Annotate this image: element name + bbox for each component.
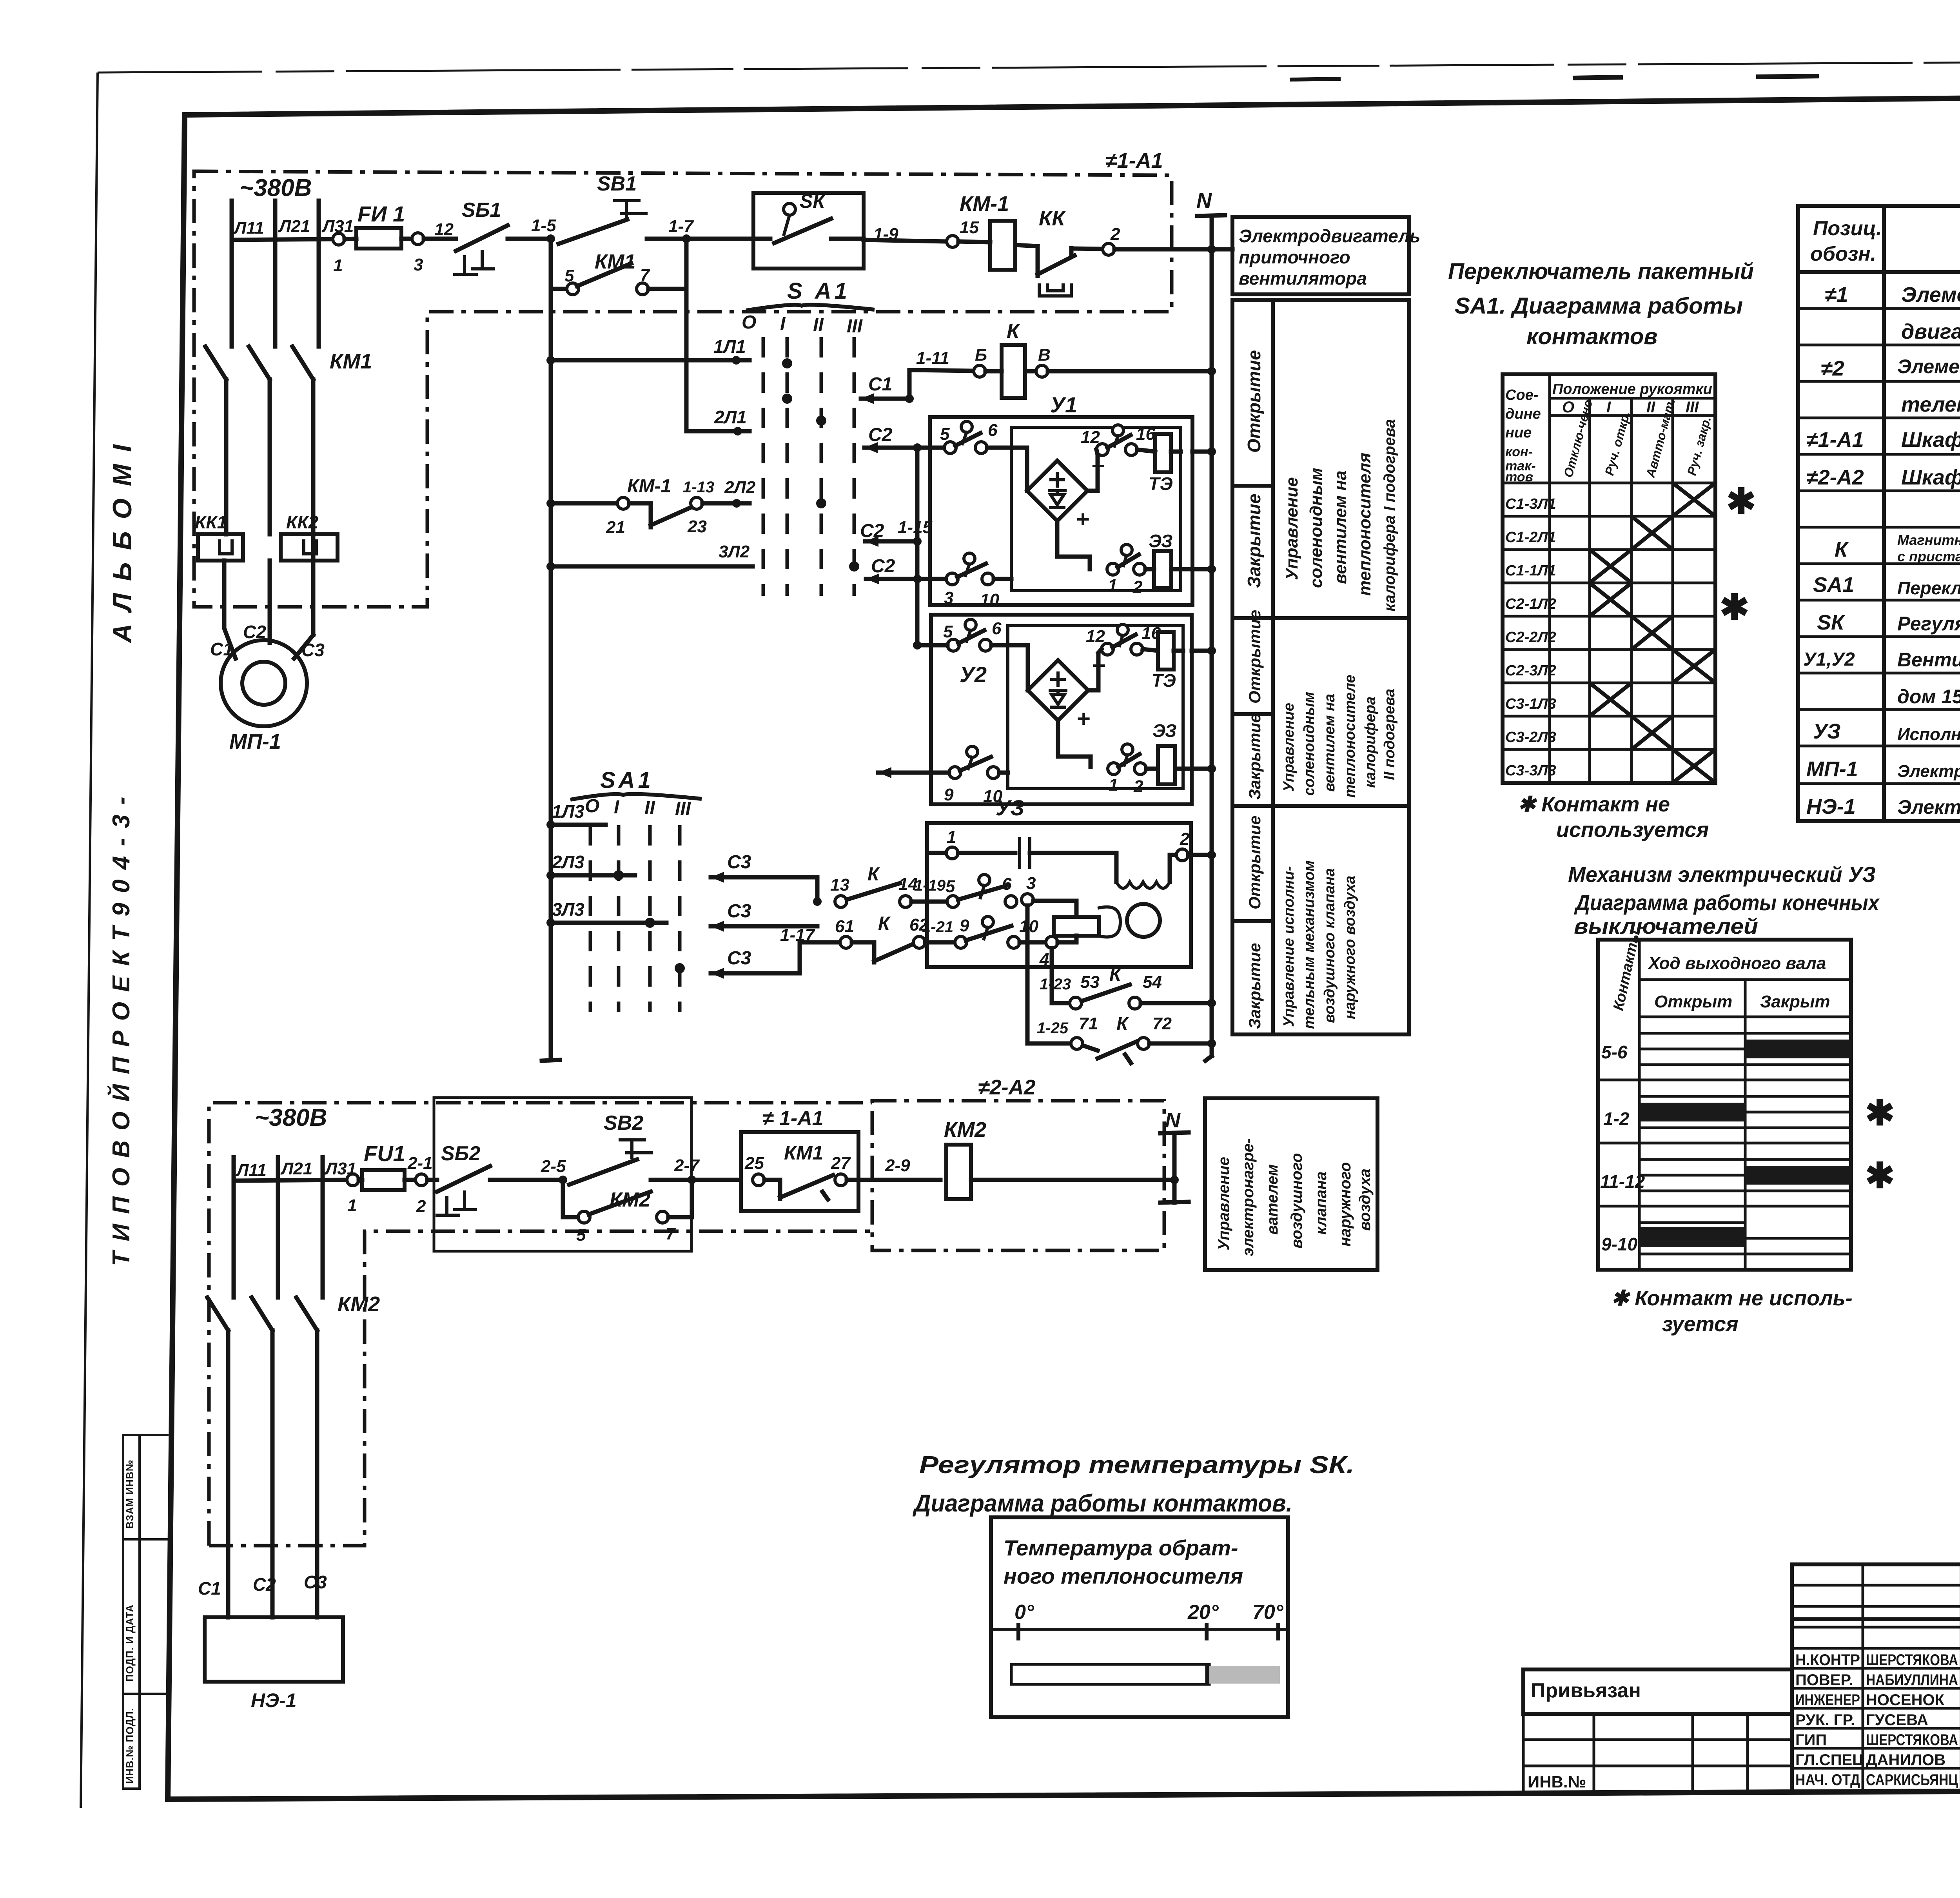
- U1 contact 12-16: [1096, 444, 1108, 455]
- svg-text:тельным механизмом: тельным механизмом: [1301, 860, 1318, 1029]
- wire phase L2 lower: [276, 1157, 280, 1296]
- svg-text:ИНВ.№ ПОДЛ.: ИНВ.№ ПОДЛ.: [124, 1708, 136, 1784]
- svg-text:наружного воздуха: наружного воздуха: [1342, 876, 1358, 1019]
- svg-text:приточного: приточного: [1239, 247, 1350, 267]
- left signature columns: [1862, 1564, 1864, 1792]
- svg-text:✱ Контакт не: ✱ Контакт не: [1518, 793, 1670, 816]
- svg-text:ИНЖЕНЕР: ИНЖЕНЕР: [1795, 1691, 1860, 1709]
- wire phase L31: [317, 201, 321, 344]
- svg-text:2: 2: [1133, 777, 1143, 796]
- U1 contact 3-10: [946, 573, 958, 585]
- U3 node 3: [1022, 894, 1033, 905]
- cabinet box ≠1-A1 lower: [741, 1132, 858, 1211]
- svg-text:КМ2: КМ2: [610, 1189, 650, 1211]
- U1 contact 5-6: [944, 442, 956, 454]
- svg-text:Управление: Управление: [1215, 1157, 1232, 1250]
- pin 1 terminal: [333, 233, 345, 245]
- svg-text:II: II: [813, 315, 824, 336]
- svg-text:Позиц.: Позиц.: [1813, 217, 1882, 240]
- top edge cut marks: [1573, 77, 1623, 78]
- svg-text:Т И П О В О Й П Р О Е К Т: Т И П О В О Й П Р О Е К Т 9 0 4 - 3 -: [107, 795, 135, 1266]
- svg-text:УЗ: УЗ: [1813, 720, 1841, 743]
- svg-text:С3: С3: [727, 901, 751, 922]
- wire phase L3 lower: [321, 1157, 325, 1296]
- svg-text:К: К: [1116, 1014, 1129, 1034]
- U2 contact 1-2 with electromagnet EZ: [1108, 763, 1120, 775]
- pin 1 terminal lower: [347, 1174, 359, 1186]
- svg-text:II: II: [1646, 399, 1655, 416]
- svg-text:1: 1: [333, 256, 343, 275]
- svg-text:1-19: 1-19: [914, 877, 946, 894]
- motor MP-1: [221, 640, 307, 726]
- node 1-7: [647, 237, 753, 241]
- svg-text:У1,У2: У1,У2: [1803, 649, 1855, 670]
- svg-text:ЭЗ: ЭЗ: [1152, 720, 1176, 741]
- svg-text:2Л3: 2Л3: [552, 852, 584, 872]
- X marks: [1590, 483, 1715, 783]
- svg-text:1-5: 1-5: [531, 216, 556, 235]
- svg-text:Температура обрат-: Температура обрат-: [1004, 1535, 1238, 1560]
- svg-text:вентилем на: вентилем на: [1331, 470, 1350, 584]
- svg-text:2: 2: [416, 1197, 426, 1216]
- svg-text:О: О: [742, 312, 756, 333]
- svg-text:Закрытие: Закрытие: [1245, 713, 1264, 800]
- svg-text:5: 5: [940, 425, 950, 444]
- svg-text:К: К: [1109, 964, 1122, 985]
- svg-text:≠2-А2: ≠2-А2: [978, 1076, 1036, 1099]
- svg-text:SВ2: SВ2: [604, 1112, 643, 1134]
- svg-text:3Л2: 3Л2: [719, 542, 750, 561]
- svg-text:2: 2: [1110, 225, 1120, 244]
- svg-text:3: 3: [414, 255, 423, 274]
- svg-text:используется: используется: [1556, 818, 1709, 842]
- contact KM1 break in box: [753, 1174, 764, 1186]
- svg-text:2: 2: [1132, 577, 1143, 597]
- pushbutton SB1 break contact: [424, 237, 456, 241]
- svg-text:≠2-А2: ≠2-А2: [1806, 466, 1864, 489]
- svg-text:1: 1: [347, 1196, 357, 1215]
- svg-text:Б: Б: [975, 345, 987, 365]
- svg-text:Закрытие: Закрытие: [1245, 943, 1264, 1029]
- svg-text:Механизм электрический УЗ: Механизм электрический УЗ: [1568, 862, 1876, 887]
- wire 3L2 row: [546, 562, 555, 571]
- U3 contact 9-10 row: [840, 936, 852, 948]
- svg-text:КК1: КК1: [195, 512, 227, 532]
- svg-text:3: 3: [1026, 874, 1036, 893]
- dash-dot cabinet boundary ≠1-A1: [194, 171, 1172, 607]
- wire 3L3 row: [546, 918, 555, 927]
- svg-text:Сое-: Сое-: [1505, 387, 1538, 403]
- wire phase L21: [273, 201, 278, 344]
- svg-text:Открытие: Открытие: [1245, 816, 1264, 909]
- svg-text:ГИП: ГИП: [1795, 1731, 1827, 1749]
- pushbutton SB2 break contact: [427, 1178, 437, 1182]
- svg-text:С2-2Л2: С2-2Л2: [1505, 629, 1556, 646]
- svg-text:ного теплоносителя: ного теплоносителя: [1004, 1564, 1243, 1588]
- svg-text:1-7: 1-7: [668, 217, 694, 236]
- svg-text:✱: ✱: [1865, 1094, 1895, 1133]
- svg-text:Управление исполни-: Управление исполни-: [1281, 866, 1297, 1027]
- sheet outer thin border: [81, 73, 98, 1808]
- U2 contact 5-6: [947, 639, 959, 651]
- svg-text:Элементы управления электро-: Элементы управления электро-: [1901, 283, 1960, 307]
- svg-text:III: III: [675, 798, 691, 819]
- svg-text:дине: дине: [1505, 406, 1541, 422]
- svg-text:Шкаф управления ШУ5101-03В2: Шкаф управления ШУ5101-03В2Ж: [1901, 428, 1960, 452]
- svg-text:15: 15: [960, 218, 979, 237]
- svg-text:N: N: [1196, 189, 1212, 212]
- svg-text:I: I: [780, 314, 786, 334]
- svg-text:1Л1: 1Л1: [713, 336, 746, 357]
- thermal element KK2: [281, 534, 338, 561]
- svg-text:1-21: 1-21: [922, 918, 953, 936]
- svg-text:калорифера: калорифера: [1362, 697, 1379, 788]
- pin 2 terminal: [1071, 249, 1103, 249]
- contact K 13-14: [835, 896, 847, 907]
- svg-text:≠1: ≠1: [1825, 283, 1848, 307]
- node 2-7: [651, 1178, 741, 1182]
- thermal element KK1: [198, 534, 243, 561]
- svg-text:С1: С1: [210, 639, 233, 659]
- svg-text:клапана: клапана: [1312, 1172, 1330, 1235]
- svg-text:16: 16: [1136, 425, 1155, 444]
- SA1L dashed column O: [589, 825, 592, 1012]
- row rule lines + bars: [1639, 1033, 1851, 1254]
- U2 feed from left: [878, 771, 949, 775]
- svg-text:ИНВ.№: ИНВ.№: [1528, 1773, 1586, 1791]
- svg-text:SВ1: SВ1: [597, 172, 637, 195]
- phase drops to heater: [226, 1330, 230, 1617]
- svg-text:А Л Ь Б О М I: А Л Ь Б О М I: [107, 442, 137, 644]
- SA1 dashed column III: [853, 337, 856, 596]
- svg-text:ШЕРСТЯКОВА: ШЕРСТЯКОВА: [1866, 1731, 1958, 1749]
- svg-text:5: 5: [946, 877, 955, 896]
- leads into motor: [224, 561, 236, 659]
- svg-text:Л21: Л21: [278, 217, 310, 236]
- svg-text:1-13: 1-13: [683, 479, 714, 496]
- TP row: [1792, 1617, 1960, 1621]
- svg-text:калорифера I подогрева: калорифера I подогрева: [1381, 419, 1398, 611]
- svg-text:наружного: наружного: [1337, 1162, 1354, 1247]
- U2 rectifier bridge: [1028, 660, 1088, 720]
- U1 outputs to N: [1192, 450, 1212, 454]
- svg-text:Электродвигатель 4А100LВС,~380: Электродвигатель 4А100LВС,~380В,2,2кВт: [1897, 762, 1960, 781]
- svg-text:Магнитный пускатель ПМЛ110004: Магнитный пускатель ПМЛ110004 ~220В: [1897, 532, 1960, 548]
- svg-text:72: 72: [1152, 1014, 1172, 1033]
- svg-text:соленоидным: соленоидным: [1307, 468, 1326, 588]
- U1 heater TE: [1155, 434, 1171, 472]
- svg-text:23: 23: [687, 517, 707, 536]
- svg-text:61: 61: [835, 917, 854, 936]
- svg-text:1: 1: [1108, 576, 1117, 595]
- svg-text:воздуха: воздуха: [1356, 1169, 1374, 1231]
- svg-text:дом 15КЧ892ПСВВ , ДУ-2: дом 15КЧ892ПСВВ , ДУ-25: [1897, 686, 1960, 708]
- svg-text:К: К: [867, 864, 880, 885]
- box: электродвигатель приточного вентилятора: [1232, 217, 1409, 294]
- svg-text:ПОДП. И ДАТА: ПОДП. И ДАТА: [124, 1604, 136, 1682]
- svg-text:27: 27: [831, 1154, 851, 1173]
- contact K 53-54 row: [1052, 948, 1070, 1003]
- U1 contact 1-2 with electromagnet EZ: [1107, 563, 1119, 575]
- svg-text:5: 5: [943, 622, 953, 641]
- svg-text:Закрыт: Закрыт: [1760, 992, 1830, 1011]
- svg-text:электронагре-: электронагре-: [1240, 1138, 1257, 1256]
- fuse FU1: [356, 228, 401, 249]
- svg-text:С3-2Л3: С3-2Л3: [1505, 729, 1556, 746]
- SA1L dashed column II: [648, 825, 652, 1012]
- main contacts KM2: [207, 1296, 234, 1330]
- lower main row wire: [234, 1180, 347, 1181]
- svg-text:SА1: SА1: [1813, 573, 1854, 597]
- wire 1L3 row: [546, 820, 555, 829]
- svg-text:SК: SК: [800, 190, 826, 212]
- contact K 71-72 row: [1027, 905, 1071, 1043]
- svg-text:6: 6: [988, 421, 998, 440]
- SA1 dashed column O: [762, 337, 765, 596]
- svg-text:Регулятор температуры Т.УДЭ-4: Регулятор температуры Т.УДЭ-4: [1897, 613, 1960, 635]
- svg-text:с приставкой ПКЛ 2204.ТУ16-526: с приставкой ПКЛ 2204.ТУ16-526.437-78: [1897, 548, 1960, 564]
- svg-text:5-6: 5-6: [1601, 1042, 1628, 1062]
- svg-text:✱: ✱: [1726, 482, 1756, 521]
- svg-text:С2: С2: [868, 425, 893, 445]
- svg-text:ВЗАМ ИНВ№: ВЗАМ ИНВ№: [124, 1459, 136, 1529]
- svg-text:МП-1: МП-1: [229, 730, 281, 753]
- wire main control row: [232, 239, 333, 240]
- svg-text:2-5: 2-5: [541, 1157, 566, 1176]
- U3 motor: [1099, 907, 1120, 937]
- svg-text:ГУСЕВА: ГУСЕВА: [1866, 1711, 1928, 1729]
- svg-text:У2: У2: [960, 662, 987, 687]
- svg-text:9: 9: [960, 916, 969, 935]
- svg-text:SК: SК: [1817, 611, 1846, 634]
- svg-text:НАБИУЛЛИНА: НАБИУЛЛИНА: [1866, 1671, 1958, 1689]
- svg-text:2Л1: 2Л1: [714, 407, 747, 427]
- svg-text:SА1. Диаграмма работы: SА1. Диаграмма работы: [1455, 293, 1743, 319]
- svg-text:ДАНИЛОВ: ДАНИЛОВ: [1866, 1751, 1945, 1769]
- svg-text:1Л3: 1Л3: [552, 801, 584, 822]
- svg-text:2Л2: 2Л2: [724, 478, 756, 497]
- wire 2L3 row: [546, 871, 555, 880]
- svg-text:5: 5: [576, 1225, 586, 1245]
- node 15 terminal: [864, 240, 947, 241]
- svg-text:✱: ✱: [1865, 1156, 1895, 1196]
- svg-text:воздушного: воздушного: [1288, 1153, 1305, 1248]
- SA1L dashed column III: [678, 825, 682, 1012]
- svg-text:обозн.: обозн.: [1810, 243, 1876, 265]
- svg-text:Привьязан: Привьязан: [1531, 1679, 1641, 1702]
- svg-text:1-25: 1-25: [1037, 1020, 1069, 1037]
- svg-text:С1-2Л1: С1-2Л1: [1505, 529, 1556, 546]
- auxiliary contact KM1 self-hold: [549, 239, 553, 289]
- SA1 dashed column II: [820, 337, 823, 596]
- svg-text:11-12: 11-12: [1600, 1171, 1645, 1192]
- привязан box: [1523, 1669, 1792, 1792]
- pushbutton SB2 make contact: [569, 1159, 637, 1185]
- U1 inner unit: [1011, 427, 1181, 591]
- svg-text:53: 53: [1080, 973, 1100, 992]
- contactor coil KM2: [946, 1145, 971, 1199]
- svg-text:2-9: 2-9: [885, 1156, 910, 1175]
- svg-text:соленоидным: соленоидным: [1301, 692, 1318, 796]
- svg-text:НЭ-1: НЭ-1: [251, 1689, 297, 1711]
- svg-text:Открытие: Открытие: [1245, 610, 1264, 704]
- svg-text:✱ Контакт не исполь-: ✱ Контакт не исполь-: [1611, 1287, 1853, 1310]
- svg-text:III: III: [847, 316, 863, 337]
- svg-text:Открытие: Открытие: [1244, 350, 1264, 453]
- svg-text:КМ1: КМ1: [330, 350, 372, 373]
- pin 3 terminal: [412, 233, 424, 245]
- relay K coil: [1002, 345, 1025, 398]
- svg-text:Положение рукоятки: Положение рукоятки: [1552, 381, 1712, 397]
- svg-text:2-1: 2-1: [407, 1154, 433, 1173]
- contact KM-1 21-23 row: [546, 499, 555, 508]
- svg-text:Л21: Л21: [280, 1159, 312, 1178]
- svg-text:5: 5: [564, 266, 574, 285]
- svg-text:С1-1Л1: С1-1Л1: [1505, 563, 1556, 579]
- svg-text:2-7: 2-7: [674, 1156, 700, 1175]
- svg-text:вателем: вателем: [1264, 1164, 1281, 1235]
- svg-text:К: К: [878, 913, 891, 934]
- svg-text:К: К: [1007, 320, 1020, 343]
- svg-text:С1: С1: [868, 374, 892, 395]
- svg-text:кон-: кон-: [1505, 445, 1533, 459]
- svg-text:теплоносителя: теплоносителя: [1355, 453, 1374, 596]
- svg-text:+: +: [1076, 506, 1090, 532]
- main contacts KM1: [205, 344, 232, 379]
- svg-text:Элементы управления электронаг: Элементы управления электронагрева-: [1897, 356, 1960, 377]
- svg-text:Открыт: Открыт: [1654, 992, 1732, 1011]
- svg-text:НЭ-1: НЭ-1: [1806, 795, 1856, 818]
- svg-text:SБ1: SБ1: [462, 199, 501, 221]
- svg-text:13: 13: [830, 875, 849, 895]
- U2 outputs to N: [1192, 649, 1212, 653]
- svg-text:ГЛ.СПЕЦ: ГЛ.СПЕЦ: [1795, 1751, 1864, 1769]
- U1 wires internal: [987, 446, 1011, 450]
- wire phase L1 lower: [232, 1157, 236, 1296]
- long feed wire down left: [549, 289, 553, 1058]
- svg-text:С3: С3: [727, 852, 751, 873]
- svg-text:6: 6: [992, 619, 1002, 638]
- svg-text:≠ 1-А1: ≠ 1-А1: [762, 1107, 824, 1130]
- U2 heater TE: [1158, 632, 1174, 670]
- svg-text:Переключатель пакетный ППЗ-1: Переключатель пакетный ППЗ-10/Н3: [1897, 578, 1960, 598]
- svg-text:I: I: [1606, 399, 1611, 416]
- node 2-5: [559, 1176, 567, 1184]
- dash-dot zone boundary ≠2: [209, 1103, 872, 1546]
- svg-text:зуется: зуется: [1662, 1312, 1739, 1336]
- svg-text:Н.КОНТР: Н.КОНТР: [1795, 1651, 1860, 1669]
- svg-text:7: 7: [640, 265, 651, 285]
- svg-text:КМ-1: КМ-1: [960, 192, 1009, 216]
- svg-text:Л11: Л11: [233, 218, 264, 238]
- svg-text:1-17: 1-17: [780, 925, 816, 945]
- svg-text:С3-1Л3: С3-1Л3: [1505, 696, 1556, 712]
- svg-text:С2: С2: [871, 556, 895, 577]
- svg-text:вентилятора: вентилятора: [1239, 268, 1367, 289]
- svg-text:С3-3Л3: С3-3Л3: [1505, 762, 1556, 779]
- svg-text:О: О: [1562, 399, 1574, 416]
- svg-text:РУК. ГР.: РУК. ГР.: [1795, 1711, 1855, 1729]
- svg-text:12: 12: [434, 220, 454, 239]
- svg-text:FU1: FU1: [364, 1141, 405, 1166]
- svg-text:≠1-А1: ≠1-А1: [1105, 149, 1163, 172]
- svg-text:~380В: ~380В: [240, 174, 312, 201]
- U2 inner unit: [1008, 626, 1183, 789]
- svg-text:1: 1: [947, 827, 956, 847]
- svg-text:вентилем на: вентилем на: [1321, 694, 1338, 792]
- fuse FU1 lower: [362, 1170, 405, 1190]
- svg-text:Исполнительный механизм МЭО-4: Исполнительный механизм МЭО-4/63-0,63: [1897, 725, 1960, 744]
- svg-text:7: 7: [666, 1224, 676, 1243]
- svg-text:9: 9: [944, 785, 954, 804]
- U3 solenoid: [1054, 917, 1099, 936]
- svg-text:Шкаф управления ШУ5101-0382Д: Шкаф управления ШУ5101-0382Д: [1901, 466, 1960, 489]
- wire 2L1 row: [684, 289, 689, 431]
- svg-text:Л11: Л11: [236, 1161, 267, 1180]
- svg-text:КМ2: КМ2: [338, 1292, 380, 1316]
- svg-text:≠1-А1: ≠1-А1: [1806, 428, 1864, 452]
- svg-text:У1: У1: [1050, 392, 1077, 417]
- svg-text:КМ1: КМ1: [595, 250, 635, 273]
- svg-text:12: 12: [1081, 428, 1100, 447]
- svg-text:1-15: 1-15: [898, 518, 933, 537]
- svg-text:2: 2: [1180, 829, 1190, 849]
- svg-text:ние: ние: [1505, 425, 1532, 441]
- svg-text:Закрытие: Закрытие: [1244, 494, 1264, 588]
- svg-text:ТЭ: ТЭ: [1152, 670, 1176, 691]
- svg-text:С2: С2: [253, 1574, 276, 1595]
- svg-text:С2-3Л2: С2-3Л2: [1505, 662, 1556, 679]
- U3 contact 5-6 changeover: [947, 896, 959, 907]
- solenoid valve U1 box: [930, 417, 1192, 605]
- svg-text:Вентиль с электромагнитным пр: Вентиль с электромагнитным приво-: [1897, 649, 1960, 671]
- solenoid valve U2 box: [931, 615, 1192, 804]
- svg-text:✱: ✱: [1720, 588, 1749, 627]
- electric heater NE-1: [205, 1617, 343, 1682]
- svg-text:ШЕРСТЯКОВА: ШЕРСТЯКОВА: [1866, 1651, 1958, 1669]
- svg-text:III: III: [1686, 399, 1699, 416]
- svg-text:КМ2: КМ2: [944, 1118, 986, 1141]
- svg-text:10: 10: [980, 590, 999, 610]
- svg-text:4: 4: [1039, 950, 1049, 969]
- svg-text:САРКИСЬЯНЦ: САРКИСЬЯНЦ: [1866, 1771, 1958, 1789]
- box: управление вентилем калорифера I: [1232, 300, 1409, 618]
- svg-text:1-11: 1-11: [916, 348, 949, 368]
- svg-text:Диаграмма работы контактов.: Диаграмма работы контактов.: [912, 1490, 1292, 1517]
- svg-text:КК: КК: [1039, 207, 1066, 230]
- svg-text:II подогрева: II подогрева: [1381, 689, 1398, 780]
- svg-text:12: 12: [1086, 627, 1105, 646]
- svg-text:КК2: КК2: [286, 512, 319, 532]
- U2 wires internal: [991, 645, 1028, 690]
- svg-text:21: 21: [606, 518, 625, 537]
- svg-text:С2: С2: [860, 521, 884, 541]
- svg-text:КМ-1: КМ-1: [627, 476, 671, 497]
- svg-text:ПОВЕР.: ПОВЕР.: [1795, 1671, 1853, 1689]
- actuator U3 box: [927, 823, 1191, 967]
- pushbutton SB1 make contact: [559, 220, 627, 244]
- svg-text:FИ 1: FИ 1: [358, 201, 405, 226]
- left filing strip column: [123, 1435, 140, 1789]
- svg-text:КМ1: КМ1: [784, 1142, 823, 1164]
- U2 contact 12-16: [1102, 643, 1113, 655]
- svg-text:6: 6: [1002, 875, 1012, 894]
- local buttons enclosure: [434, 1098, 691, 1251]
- svg-text:20°: 20°: [1187, 1601, 1219, 1624]
- SA1 table: [1503, 374, 1715, 783]
- temperature regulator SK box: [753, 193, 864, 269]
- U1 rectifier bridge: [1027, 461, 1087, 521]
